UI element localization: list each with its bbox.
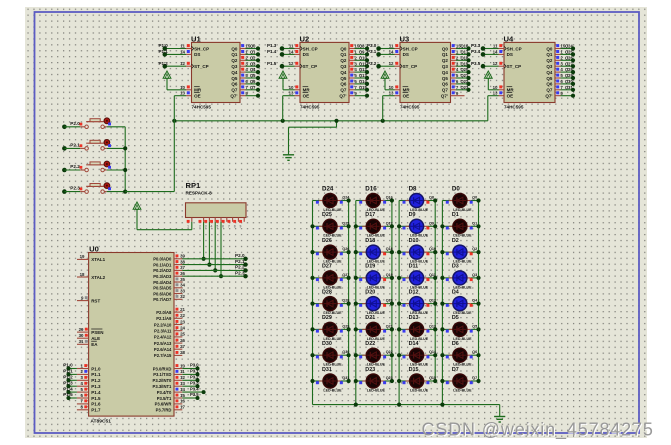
svg-text:Q3: Q3 bbox=[472, 273, 477, 277]
U3 pin 14 DS bbox=[367, 49, 400, 57]
U0 pin 6 P1.5 bbox=[63, 392, 101, 401]
svg-text:23: 23 bbox=[180, 319, 185, 324]
U4 pin 1 Q25 out bbox=[555, 50, 575, 57]
LED D2 on bbox=[440, 238, 480, 264]
U0 pin 4 P1.3 bbox=[63, 380, 101, 389]
svg-text:ST_CP: ST_CP bbox=[403, 64, 418, 69]
svg-text:Q7: Q7 bbox=[442, 88, 449, 93]
svg-text:XTAL2: XTAL2 bbox=[91, 275, 105, 280]
svg-text:P0.4/AD4: P0.4/AD4 bbox=[153, 280, 172, 285]
svg-text:12: 12 bbox=[389, 61, 394, 66]
U0 pin 23 P2.2 bbox=[154, 319, 186, 327]
svg-text:U4: U4 bbox=[504, 34, 514, 43]
svg-text:SH_CP: SH_CP bbox=[194, 46, 209, 51]
svg-text:P2.1/A9: P2.1/A9 bbox=[156, 316, 172, 321]
svg-text:P2.1: P2.1 bbox=[235, 259, 245, 264]
U0 pin 10 P3.0/RXD bbox=[153, 363, 200, 372]
U1 VCC power terminal bbox=[163, 71, 186, 90]
wire RP1 pin2 to P0.0 bbox=[202, 222, 206, 261]
svg-text:11: 11 bbox=[180, 369, 185, 374]
svg-text:10: 10 bbox=[180, 85, 185, 90]
U1 pin 11 SH_CP bbox=[159, 43, 192, 51]
U0 pin 25 P2.4 bbox=[154, 332, 186, 340]
svg-text:33: 33 bbox=[180, 288, 185, 293]
svg-text:P3.7/RD: P3.7/RD bbox=[156, 408, 172, 413]
U4 pin 13 OE bbox=[493, 91, 504, 96]
svg-text:12: 12 bbox=[180, 375, 185, 380]
svg-text:LED-BLUE: LED-BLUE bbox=[323, 388, 342, 392]
svg-text:P3.0: P3.0 bbox=[190, 363, 199, 368]
U1 pin 1 Q1 out bbox=[240, 50, 260, 57]
U3 pin 5 Q21 out bbox=[451, 73, 471, 80]
U2 pin 7 Q15 out bbox=[349, 85, 369, 92]
LED D30 off bbox=[310, 341, 350, 367]
svg-text:26: 26 bbox=[180, 338, 185, 343]
U1 OE wire to ground rail bbox=[174, 96, 186, 121]
svg-text:Q9: Q9 bbox=[429, 221, 434, 225]
svg-text:P1.4: P1.4 bbox=[91, 390, 101, 395]
U0 pin 18 XTAL2 bbox=[77, 272, 106, 280]
svg-text:P1.1: P1.1 bbox=[63, 369, 73, 374]
microcontroller U0 AT89C51 body bbox=[89, 244, 174, 424]
svg-text:Q3: Q3 bbox=[250, 61, 256, 66]
svg-text:P3.2: P3.2 bbox=[367, 61, 377, 66]
svg-text:Q2: Q2 bbox=[340, 58, 347, 63]
U0 pin 30 ALE bbox=[77, 333, 100, 341]
svg-text:P1.5: P1.5 bbox=[63, 392, 73, 397]
svg-text:Q1: Q1 bbox=[231, 52, 238, 57]
push button P2.3 bbox=[62, 183, 125, 194]
svg-text:12: 12 bbox=[289, 61, 294, 66]
svg-text:Q7: Q7 bbox=[472, 376, 477, 380]
RP1 pin 2 bbox=[199, 218, 204, 229]
U3 pin 7 Q23 out bbox=[451, 85, 471, 92]
svg-text:P0.2/AD2: P0.2/AD2 bbox=[153, 268, 172, 273]
svg-text:SH_CP: SH_CP bbox=[403, 46, 418, 51]
svg-text:Q0: Q0 bbox=[546, 46, 553, 51]
svg-text:Q3: Q3 bbox=[442, 64, 449, 69]
wire buttons to U1 OE/ground drop bbox=[125, 121, 174, 192]
U0 pin 7 P1.6 bbox=[77, 399, 101, 407]
svg-text:Q1: Q1 bbox=[472, 221, 477, 225]
LED D10 on bbox=[397, 238, 437, 264]
svg-text:Q7': Q7' bbox=[441, 94, 448, 99]
svg-text:P1.2: P1.2 bbox=[91, 378, 101, 383]
U2 pin 10 MR bbox=[289, 85, 300, 90]
svg-text:2: 2 bbox=[199, 225, 201, 229]
LED D18 on bbox=[354, 238, 394, 264]
svg-text:D31: D31 bbox=[322, 367, 332, 373]
svg-text:Q1: Q1 bbox=[442, 52, 449, 57]
svg-text:D14: D14 bbox=[409, 341, 419, 347]
U3 pin 4 Q20 out bbox=[451, 67, 471, 74]
svg-text:Q7': Q7' bbox=[545, 94, 552, 99]
U0 pin 5 P1.4 bbox=[63, 386, 101, 395]
svg-text:17: 17 bbox=[180, 405, 185, 410]
U3 pin 6 Q22 out bbox=[451, 79, 471, 86]
U0 pin 15 P3.5/T1 bbox=[157, 392, 200, 401]
svg-text:P2.5/A13: P2.5/A13 bbox=[154, 341, 172, 346]
svg-text:P1.3: P1.3 bbox=[267, 43, 277, 48]
svg-text:15: 15 bbox=[180, 393, 185, 398]
RP1 pin 4 bbox=[210, 218, 215, 229]
U4 pin 4 Q28 out bbox=[555, 67, 575, 74]
svg-text:7: 7 bbox=[228, 225, 230, 229]
svg-text:RESPACK-8: RESPACK-8 bbox=[186, 190, 213, 195]
U3 pin 10 MR bbox=[389, 85, 400, 90]
svg-text:D13: D13 bbox=[409, 315, 419, 321]
svg-text:P1.6: P1.6 bbox=[91, 402, 101, 407]
svg-text:P3.2: P3.2 bbox=[190, 375, 199, 380]
LED D24 off bbox=[313, 185, 351, 212]
svg-text:Q6: Q6 bbox=[546, 82, 553, 87]
svg-text:11: 11 bbox=[180, 44, 185, 49]
junction button rail row2 bbox=[123, 146, 127, 150]
U2 pin 1 Q9 out bbox=[349, 50, 369, 57]
push button P2.1 bbox=[62, 140, 125, 151]
LED D0 off bbox=[442, 185, 480, 212]
svg-text:P1.3: P1.3 bbox=[91, 384, 101, 389]
U0 pin 24 P2.3 bbox=[154, 326, 185, 334]
svg-text:DS: DS bbox=[303, 52, 309, 57]
svg-text:Q1: Q1 bbox=[546, 52, 553, 57]
svg-text:P0.7/AD7: P0.7/AD7 bbox=[153, 297, 172, 302]
svg-text:AT89C51: AT89C51 bbox=[90, 419, 111, 425]
U2 OE wire to ground rail bbox=[283, 96, 295, 121]
svg-text:Q7': Q7' bbox=[339, 94, 346, 99]
svg-text:P3.3: P3.3 bbox=[190, 380, 199, 385]
LED D31 off bbox=[310, 367, 350, 393]
U4 pin 14 DS bbox=[471, 49, 504, 57]
svg-text:12: 12 bbox=[180, 61, 185, 66]
svg-text:P3.1: P3.1 bbox=[367, 49, 377, 54]
svg-text:Q8: Q8 bbox=[359, 44, 365, 49]
svg-text:D11: D11 bbox=[409, 264, 419, 270]
U2 pin 3 Q11 out bbox=[349, 61, 369, 68]
svg-text:13: 13 bbox=[289, 91, 294, 96]
svg-text:D16: D16 bbox=[365, 185, 377, 192]
svg-text:DS: DS bbox=[194, 52, 200, 57]
wire LED column 1 right rail bbox=[348, 201, 350, 382]
svg-text:EA: EA bbox=[91, 342, 98, 347]
svg-text:Q5: Q5 bbox=[250, 73, 256, 78]
svg-text:Q1: Q1 bbox=[340, 52, 347, 57]
U1 pin 7 Q7 out bbox=[240, 85, 260, 92]
U4 pin 12 ST_CP bbox=[471, 61, 504, 69]
svg-text:Q9: Q9 bbox=[359, 50, 365, 55]
svg-text:Q6: Q6 bbox=[231, 82, 238, 87]
wire RP1 pin5 to P0.3 bbox=[219, 222, 223, 279]
LED D28 off bbox=[310, 289, 350, 315]
svg-text:P0.5/AD5: P0.5/AD5 bbox=[153, 286, 172, 291]
svg-text:D12: D12 bbox=[409, 289, 419, 295]
shift register U1 74HC595 body bbox=[191, 34, 240, 109]
U0 pin 35 P0.4 bbox=[153, 277, 185, 285]
svg-text:39: 39 bbox=[180, 254, 185, 259]
svg-text:P2.2/A10: P2.2/A10 bbox=[154, 322, 172, 327]
U4 VCC power terminal bbox=[484, 71, 498, 90]
junction rail-gndtap bbox=[334, 119, 338, 123]
svg-text:Q7: Q7 bbox=[340, 88, 347, 93]
RP1 pin 1 bbox=[187, 218, 192, 229]
svg-text:D18: D18 bbox=[365, 238, 375, 244]
svg-text:35: 35 bbox=[180, 277, 185, 282]
svg-text:P0.0/AD0: P0.0/AD0 bbox=[153, 257, 172, 262]
LED D9 on bbox=[397, 212, 437, 238]
svg-text:14: 14 bbox=[180, 387, 185, 392]
U2 pin 12 ST_CP bbox=[267, 61, 300, 69]
svg-text:Q3: Q3 bbox=[231, 64, 238, 69]
U0 pin 26 P2.5 bbox=[154, 338, 186, 346]
svg-text:P3.5: P3.5 bbox=[190, 392, 199, 397]
junction bottom rail col2 bbox=[354, 403, 358, 407]
svg-text:D17: D17 bbox=[365, 212, 375, 218]
push button P2.2 bbox=[62, 161, 125, 172]
svg-text:P1.1: P1.1 bbox=[91, 372, 101, 377]
svg-text:LED-BLUE: LED-BLUE bbox=[453, 388, 472, 392]
svg-text:P3.4: P3.4 bbox=[190, 386, 199, 391]
U0 pin 2 P1.1 bbox=[63, 369, 101, 378]
svg-text:D8: D8 bbox=[409, 185, 417, 192]
svg-text:5: 5 bbox=[216, 225, 218, 229]
wire ground tap jog bbox=[289, 121, 337, 155]
svg-text:1: 1 bbox=[187, 225, 189, 229]
svg-text:D0: D0 bbox=[452, 185, 460, 192]
svg-text:P3.3: P3.3 bbox=[471, 43, 481, 48]
svg-text:Q0: Q0 bbox=[250, 44, 256, 49]
shift register U4 74HC595 body bbox=[504, 34, 556, 109]
svg-text:25: 25 bbox=[180, 332, 185, 337]
LED D12 on bbox=[397, 289, 437, 315]
LED D25 off bbox=[310, 212, 350, 238]
svg-text:28: 28 bbox=[180, 350, 185, 355]
svg-text:Q4: Q4 bbox=[231, 70, 238, 75]
svg-text:74HC595: 74HC595 bbox=[300, 104, 320, 109]
U0 pin 11 P3.1/TXD bbox=[153, 369, 199, 378]
junction bottom rail col4 bbox=[440, 403, 444, 407]
U0 pin 12 P3.2/INT0 bbox=[153, 375, 200, 384]
svg-text:U3: U3 bbox=[400, 34, 410, 43]
U0 pin 1 P1.0 bbox=[63, 363, 101, 372]
LED D16 off bbox=[356, 185, 394, 212]
U2 pin 2 Q10 out bbox=[349, 55, 369, 62]
svg-text:P2.4/A12: P2.4/A12 bbox=[154, 335, 172, 340]
U0 pin 28 P2.7 bbox=[154, 350, 186, 358]
U3 VCC power terminal bbox=[381, 71, 394, 90]
U0 pin 38 P0.1 bbox=[153, 259, 247, 268]
svg-text:P3.0/RXD: P3.0/RXD bbox=[153, 366, 172, 371]
svg-text:10: 10 bbox=[389, 85, 394, 90]
svg-text:14: 14 bbox=[493, 49, 498, 54]
svg-text:D1: D1 bbox=[452, 212, 459, 218]
svg-text:OE: OE bbox=[403, 94, 410, 99]
svg-text:D3: D3 bbox=[452, 264, 459, 270]
svg-text:OE: OE bbox=[303, 94, 310, 99]
svg-text:P1.4: P1.4 bbox=[63, 386, 73, 391]
U1 pin 3 Q3 out bbox=[240, 61, 260, 68]
svg-text:Q0: Q0 bbox=[340, 46, 347, 51]
svg-text:P3.1: P3.1 bbox=[190, 369, 199, 374]
svg-text:D5: D5 bbox=[452, 315, 459, 321]
svg-text:Q4: Q4 bbox=[340, 70, 347, 75]
svg-text:P1.1: P1.1 bbox=[159, 49, 169, 54]
svg-text:PSEN: PSEN bbox=[91, 330, 103, 335]
svg-text:Q6: Q6 bbox=[472, 350, 477, 354]
svg-text:Q6: Q6 bbox=[250, 79, 256, 84]
U0 pin 16 P3.6/WR bbox=[155, 399, 186, 407]
svg-text:Q5: Q5 bbox=[546, 76, 553, 81]
junction rail-U2OE bbox=[281, 119, 285, 123]
svg-text:37: 37 bbox=[180, 265, 185, 270]
U0 pin 9 RST bbox=[77, 295, 100, 303]
U2 pin 13 OE bbox=[289, 91, 300, 96]
svg-text:10: 10 bbox=[180, 363, 185, 368]
svg-text:P3.0: P3.0 bbox=[367, 43, 377, 48]
shift register U2 74HC595 body bbox=[300, 34, 350, 109]
svg-text:P1.5: P1.5 bbox=[267, 61, 277, 66]
wire LED column 3 right rail bbox=[434, 201, 436, 382]
svg-text:19: 19 bbox=[80, 254, 85, 259]
U0 pin 36 P0.3 bbox=[153, 270, 247, 279]
U0 pin 37 P0.2 bbox=[153, 265, 247, 274]
U4 pin 5 Q29 out bbox=[555, 73, 575, 80]
svg-text:U2: U2 bbox=[300, 34, 310, 43]
svg-text:P1.3: P1.3 bbox=[63, 380, 73, 385]
svg-text:30: 30 bbox=[79, 333, 84, 338]
U0 pin 31 EA bbox=[77, 339, 98, 347]
LED D6 off bbox=[440, 341, 480, 367]
svg-text:11: 11 bbox=[493, 44, 498, 49]
svg-text:Q5: Q5 bbox=[472, 324, 477, 328]
svg-text:32: 32 bbox=[180, 294, 185, 299]
resistor pack RP1 RESPACK-8 body bbox=[186, 181, 247, 218]
svg-text:31: 31 bbox=[79, 339, 84, 344]
wire RP1 pin4 to P0.2 bbox=[213, 222, 217, 273]
RP1 pin 7 bbox=[228, 218, 233, 229]
U1 pin 13 OE bbox=[180, 91, 191, 96]
svg-text:P2.6/A14: P2.6/A14 bbox=[154, 347, 172, 352]
svg-text:P2.1: P2.1 bbox=[70, 142, 80, 147]
wire RP1 pin3 to P0.1 bbox=[207, 222, 211, 267]
svg-text:38: 38 bbox=[180, 259, 185, 264]
U3 pin 1 Q17 out bbox=[451, 50, 471, 57]
U2 pin 15 Q8 out bbox=[349, 44, 369, 51]
LED D29 off bbox=[310, 315, 350, 341]
junction button rail row3 bbox=[123, 168, 127, 172]
svg-text:Q4: Q4 bbox=[250, 67, 256, 72]
U0 pin 33 P0.6 bbox=[153, 288, 185, 296]
svg-text:Q0: Q0 bbox=[442, 46, 449, 51]
svg-text:P3.2/INT0: P3.2/INT0 bbox=[153, 378, 173, 383]
U0 pin 32 P0.7 bbox=[153, 294, 185, 302]
U4 OE wire to ground rail bbox=[488, 96, 499, 121]
svg-text:D27: D27 bbox=[322, 264, 332, 270]
LED D20 on bbox=[354, 289, 394, 315]
svg-text:P1.0: P1.0 bbox=[63, 363, 73, 368]
svg-text:Q5: Q5 bbox=[442, 76, 449, 81]
svg-text:13: 13 bbox=[389, 91, 394, 96]
svg-text:ST_CP: ST_CP bbox=[507, 64, 522, 69]
svg-text:P1.2: P1.2 bbox=[63, 375, 73, 380]
svg-text:14: 14 bbox=[180, 49, 185, 54]
svg-text:P3.4/T0: P3.4/T0 bbox=[157, 390, 172, 395]
U1 pin 14 DS bbox=[159, 49, 192, 57]
ground GND2 matrix bbox=[494, 405, 505, 422]
U3 pin 11 SH_CP bbox=[367, 43, 400, 51]
svg-text:36: 36 bbox=[180, 271, 185, 276]
svg-text:P3.6/WR: P3.6/WR bbox=[155, 402, 172, 407]
U4 pin 2 Q26 out bbox=[555, 55, 575, 62]
RP1 pin 8 bbox=[233, 218, 238, 229]
svg-text:Q3: Q3 bbox=[340, 64, 347, 69]
svg-text:P2.2: P2.2 bbox=[70, 164, 80, 169]
RP1 VCC power terminal bbox=[133, 202, 192, 230]
svg-text:D25: D25 bbox=[322, 212, 332, 218]
svg-text:Q6: Q6 bbox=[340, 82, 347, 87]
ground GND1 bbox=[283, 154, 294, 160]
svg-text:Q7: Q7 bbox=[231, 88, 238, 93]
svg-text:MR: MR bbox=[194, 88, 202, 93]
U0 pin 21 P2.0 bbox=[156, 307, 185, 315]
svg-text:XTAL1: XTAL1 bbox=[91, 257, 105, 262]
svg-text:D22: D22 bbox=[365, 341, 375, 347]
U0 pin 8 P1.7 bbox=[77, 405, 101, 413]
svg-text:6: 6 bbox=[222, 225, 224, 229]
LED D26 off bbox=[310, 238, 350, 264]
svg-text:12: 12 bbox=[493, 61, 498, 66]
svg-text:P2.0: P2.0 bbox=[235, 253, 245, 258]
svg-text:LED-BLUE: LED-BLUE bbox=[410, 388, 429, 392]
svg-text:D28: D28 bbox=[322, 289, 332, 295]
wire LED column 3 left rail bbox=[398, 201, 400, 405]
svg-text:D21: D21 bbox=[365, 315, 375, 321]
U2 pin 5 Q13 out bbox=[349, 73, 369, 80]
svg-text:P1.2: P1.2 bbox=[159, 61, 169, 66]
svg-text:LED-BLUE: LED-BLUE bbox=[367, 388, 386, 392]
wire LED matrix bottom ground rail bbox=[313, 404, 500, 406]
U1 pin 12 ST_CP bbox=[159, 61, 192, 69]
svg-text:MR: MR bbox=[303, 88, 311, 93]
U1 pin 4 Q4 out bbox=[240, 67, 260, 74]
U1 pin 10 MR bbox=[180, 85, 191, 90]
LED D22 off bbox=[354, 341, 394, 367]
svg-text:DS: DS bbox=[403, 52, 409, 57]
wire button common rail bbox=[124, 127, 126, 192]
LED D17 off bbox=[354, 212, 394, 238]
wire LED column 2 right rail bbox=[391, 201, 393, 382]
svg-text:P2.3: P2.3 bbox=[235, 270, 245, 275]
svg-text:D30: D30 bbox=[322, 341, 332, 347]
U0 pin 29 PSEN bbox=[77, 327, 103, 335]
U3 pin 2 Q18 out bbox=[451, 55, 471, 62]
U0 pin 22 P2.1 bbox=[156, 313, 185, 321]
svg-text:Q5: Q5 bbox=[231, 76, 238, 81]
U3 pin 12 ST_CP bbox=[367, 61, 400, 69]
LED D3 on bbox=[440, 264, 480, 290]
junction button rail row4 bbox=[123, 190, 127, 194]
svg-text:18: 18 bbox=[80, 272, 85, 277]
U3 pin 3 Q19 out bbox=[451, 61, 471, 68]
svg-text:21: 21 bbox=[180, 307, 185, 312]
U1 pin 9 Q7p out bbox=[240, 91, 260, 98]
svg-text:24: 24 bbox=[180, 326, 185, 331]
U4 pin 11 SH_CP bbox=[471, 43, 504, 51]
LED D11 on bbox=[397, 264, 437, 290]
svg-text:10: 10 bbox=[289, 85, 294, 90]
svg-text:Q2: Q2 bbox=[231, 58, 238, 63]
svg-text:13: 13 bbox=[180, 381, 185, 386]
U0 pin 39 P0.0 bbox=[153, 253, 247, 262]
